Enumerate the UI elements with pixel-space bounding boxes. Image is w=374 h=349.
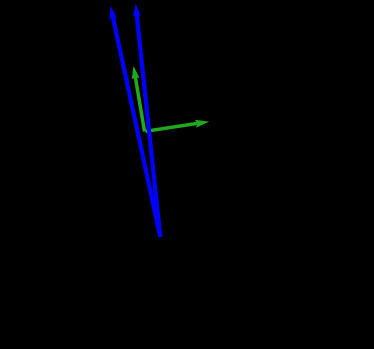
blue vector arrow 1 (left) head	[110, 6, 118, 20]
blue vector arrow 2 (right) head	[133, 4, 141, 17]
blue vector arrow 1 (left) shaft	[113, 17, 161, 237]
green vector arrow right head	[195, 120, 209, 128]
blue vector arrow 2 (right) shaft	[137, 14, 161, 237]
green vector arrow up shaft	[135, 77, 144, 132]
green vector arrow right shaft	[146, 123, 198, 131]
green vector arrow up head	[132, 66, 140, 80]
